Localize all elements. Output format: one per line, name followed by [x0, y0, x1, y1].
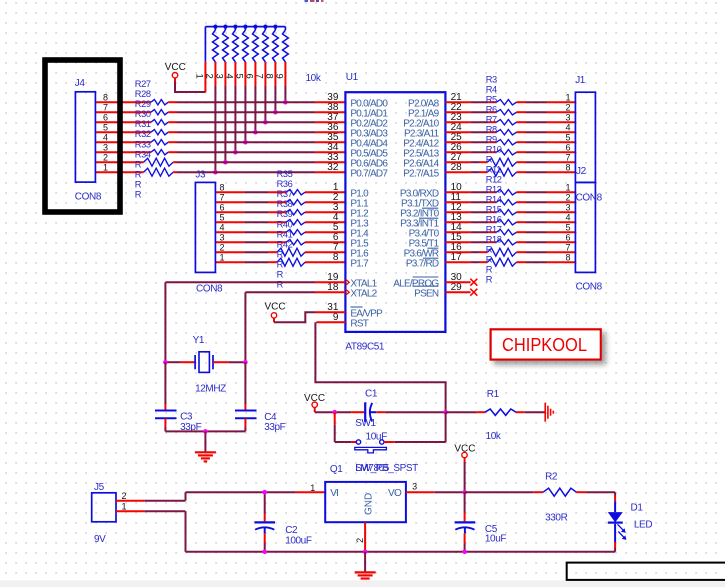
ground (crystal) — [195, 431, 216, 461]
U1 pin name ALE/PROG with overline — [393, 277, 439, 289]
svg-text:R40: R40 — [277, 219, 293, 229]
svg-text:2: 2 — [203, 74, 214, 79]
svg-text:1: 1 — [565, 182, 570, 192]
wire Q1 GND pin2 to rail — [364, 522, 366, 552]
svg-text:10k: 10k — [486, 431, 502, 442]
wire+resistor on J4 row 5 — [95, 130, 345, 135]
crystal Y1 — [165, 352, 245, 373]
svg-text:2: 2 — [565, 102, 570, 112]
ground (center bottom) — [355, 552, 376, 582]
svg-text:LM7805: LM7805 — [355, 463, 390, 474]
wire+resistor on J4 row 3 — [95, 150, 345, 155]
pack pin numbers 1-9 (rotated) — [193, 74, 284, 79]
resistor pack element 9 — [283, 27, 289, 86]
svg-text:CON8: CON8 — [576, 282, 603, 293]
wire+resistor P3.7 to J2 pin 8 — [445, 258, 575, 266]
U1 pin names P1.0-P1.7 — [350, 188, 369, 269]
svg-text:10k: 10k — [306, 73, 322, 84]
junction node pull-up/1 — [273, 110, 278, 115]
svg-text:R: R — [135, 169, 142, 179]
svg-text:SW1: SW1 — [355, 418, 376, 429]
CHIPKOOL logo box — [491, 329, 601, 359]
svg-text:29: 29 — [451, 282, 463, 293]
svg-text:J1: J1 — [575, 75, 586, 86]
svg-text:R10: R10 — [486, 145, 502, 155]
svg-text:6: 6 — [565, 232, 570, 242]
title block frame corner — [567, 563, 725, 580]
svg-text:R18: R18 — [486, 235, 502, 245]
svg-text:R3: R3 — [486, 75, 497, 85]
svg-text:28: 28 — [451, 162, 463, 173]
svg-text:33pF: 33pF — [264, 422, 285, 433]
wire RST pin 9 down to reset node — [315, 322, 445, 412]
svg-text:CON8: CON8 — [196, 284, 223, 295]
svg-text:R37: R37 — [277, 189, 293, 199]
wire+resistor P3.2 to J2 pin 3 — [445, 210, 575, 215]
svg-text:1: 1 — [121, 501, 126, 511]
svg-text:P3.7/RD: P3.7/RD — [406, 258, 439, 269]
wire+resistor P2.7 to J1 pin 8 — [445, 168, 575, 176]
cut-off text fragment at top edge — [305, 0, 324, 2]
wire+resistor on J3 row 6 — [215, 210, 345, 215]
junction node pull-up/0 — [283, 100, 288, 105]
wire+resistor on J4 row 4 — [95, 140, 345, 145]
U1 pin names XTAL1 XTAL2 — [350, 278, 377, 299]
wire+resistor P3.6 to J2 pin 7 — [445, 248, 575, 256]
svg-text:8: 8 — [333, 252, 339, 263]
pin 1 common lead of resistor pack — [204, 27, 206, 92]
svg-text:AT89C51: AT89C51 — [345, 342, 385, 353]
svg-text:R1: R1 — [487, 389, 500, 400]
svg-text:3: 3 — [565, 112, 570, 122]
wire+resistor on J3 row 1 — [215, 258, 345, 266]
no-connect X on pin 30 — [445, 279, 477, 286]
U1 pin names P0.0-P0.7 — [350, 98, 388, 179]
wire VCC to EA/VPP pin 31 — [274, 312, 345, 322]
svg-text:CON8: CON8 — [75, 192, 102, 203]
junction blue dots on pack top bus — [213, 25, 277, 29]
wire: pull-up 4 down to P0 row — [234, 86, 236, 152]
svg-text:R: R — [486, 275, 493, 285]
no-connect X on pin 29 — [445, 289, 477, 296]
wire: pull-up 3 down to P0 row — [224, 86, 226, 162]
U1 pin numbers 21-28 — [451, 92, 463, 173]
power symbol VCC (5V rail) — [454, 443, 475, 457]
wire J5 pin1 to ground rail — [116, 511, 186, 552]
svg-text:2: 2 — [121, 491, 126, 501]
connector J2 body — [575, 182, 595, 272]
svg-text:8: 8 — [219, 182, 224, 192]
svg-text:P1.7: P1.7 — [350, 258, 369, 269]
resistor pack element 7 — [263, 27, 269, 86]
wire VCC to pack pin 1 — [175, 78, 205, 92]
resistor R1 — [446, 409, 545, 415]
svg-text:4: 4 — [219, 222, 224, 232]
svg-text:R: R — [486, 255, 493, 265]
svg-text:9: 9 — [273, 74, 284, 79]
svg-text:R4: R4 — [486, 85, 497, 95]
wire: pull-up 5 down to P0 row — [244, 86, 246, 142]
resistor pack element 4 — [233, 27, 239, 86]
svg-text:R42: R42 — [277, 239, 293, 249]
svg-text:R: R — [277, 270, 284, 280]
wire+resistor P2.6 to J1 pin 7 — [445, 158, 575, 166]
svg-text:Y1: Y1 — [193, 335, 205, 346]
svg-text:4: 4 — [103, 132, 108, 142]
svg-text:5: 5 — [233, 74, 244, 79]
svg-text:R39: R39 — [277, 209, 293, 219]
J5 pin numbers — [121, 491, 126, 512]
svg-text:R14: R14 — [486, 195, 502, 205]
wire Q1 VO to VCC node — [406, 491, 465, 493]
wire J5 pin2 to Q1 VI — [116, 492, 325, 501]
junction C2 top — [262, 490, 267, 495]
wire+resistor on J3 row 4 — [215, 230, 345, 235]
wire VCC down to VO node — [464, 458, 466, 493]
svg-text:R17: R17 — [486, 225, 502, 235]
connector J3 body — [195, 182, 215, 272]
svg-text:R31: R31 — [135, 119, 151, 129]
svg-text:CHIPKOOL: CHIPKOOL — [502, 335, 587, 355]
U1 pin name PSEN with overline — [413, 286, 439, 299]
wire: pull-up 7 down to P0 row — [264, 86, 266, 122]
wire+resistor P3.0 to J2 pin 1 — [445, 190, 575, 195]
svg-text:8: 8 — [263, 74, 274, 79]
svg-text:100uF: 100uF — [285, 536, 312, 547]
wire+resistor on J3 row 7 — [215, 200, 345, 205]
wire+resistor P3.3 to J2 pin 4 — [445, 220, 575, 225]
J1 pin numbers 1-8 — [565, 92, 570, 172]
svg-text:PSEN: PSEN — [414, 288, 439, 299]
junction node pull-up/3 — [253, 130, 258, 135]
svg-text:R36: R36 — [277, 179, 293, 189]
junction node pull-up/4 — [243, 140, 248, 145]
svg-text:R27: R27 — [135, 79, 151, 89]
svg-text:J4: J4 — [75, 78, 86, 89]
svg-text:1: 1 — [103, 162, 108, 172]
svg-text:1: 1 — [310, 483, 315, 493]
svg-text:1: 1 — [193, 74, 204, 79]
svg-text:R13: R13 — [486, 185, 502, 195]
junction crystal right — [243, 360, 248, 365]
junction Q1 gnd — [363, 550, 368, 555]
svg-text:5: 5 — [219, 212, 224, 222]
ground (R1, right-facing) — [544, 403, 546, 422]
svg-text:9: 9 — [333, 312, 339, 323]
svg-text:VCC: VCC — [165, 62, 186, 73]
svg-text:Q1: Q1 — [330, 464, 343, 475]
svg-text:2: 2 — [219, 242, 224, 252]
svg-text:R28: R28 — [135, 89, 151, 99]
junction C2 bottom — [262, 550, 267, 555]
svg-text:P0.7/AD7: P0.7/AD7 — [350, 168, 388, 179]
svg-text:4: 4 — [565, 212, 570, 222]
svg-text:3: 3 — [565, 202, 570, 212]
svg-text:XTAL2: XTAL2 — [350, 288, 377, 299]
XTAL2 clock arrow — [346, 289, 350, 295]
svg-text:4: 4 — [565, 122, 570, 132]
svg-text:8: 8 — [103, 92, 108, 102]
wire+resistor P3.5 to J2 pin 6 — [445, 240, 575, 245]
svg-text:330R: 330R — [545, 513, 567, 524]
U1 pin numbers 19 18 — [327, 272, 339, 293]
svg-text:6: 6 — [243, 74, 254, 79]
svg-text:2: 2 — [103, 152, 108, 162]
svg-text:R: R — [486, 265, 493, 275]
connector J5 body — [92, 493, 116, 522]
wire XTAL2 net (chip to crystal right) — [245, 292, 345, 362]
svg-text:8: 8 — [565, 252, 570, 262]
J4 pin numbers 8..1 — [103, 92, 108, 172]
power symbol VCC (top left) — [165, 62, 186, 78]
resistor pack element 3 — [223, 27, 229, 86]
svg-text:R6: R6 — [486, 105, 497, 115]
svg-text:R11: R11 — [486, 165, 501, 175]
svg-text:10uF: 10uF — [485, 533, 506, 544]
svg-text:7: 7 — [103, 102, 108, 112]
svg-text:R8: R8 — [486, 125, 497, 135]
svg-text:5: 5 — [103, 122, 108, 132]
U1 pin name EA/VPP with overline — [350, 307, 383, 319]
U1 pin names P2.0-P2.7 — [403, 98, 439, 179]
bottom gray strip — [0, 580, 725, 587]
wire+resistor on J4 row 2 — [95, 158, 345, 166]
J2 pin numbers 1-8 — [565, 182, 570, 262]
svg-text:R7: R7 — [486, 115, 497, 125]
right resistor label column R3-R18 — [486, 75, 502, 285]
capacitor C2 — [254, 492, 275, 552]
resistor pack element 8 — [273, 27, 279, 86]
svg-text:7: 7 — [565, 242, 570, 252]
svg-text:J2: J2 — [576, 166, 587, 177]
ground rail wire — [186, 551, 616, 553]
resistor pack element 2 — [213, 27, 219, 86]
svg-text:R: R — [277, 250, 284, 260]
svg-text:R: R — [486, 245, 493, 255]
junction reset right — [443, 410, 448, 415]
svg-text:R: R — [486, 155, 493, 165]
wire+resistor on J4 row 7 — [95, 110, 345, 115]
wire+resistor on J4 row 6 — [95, 120, 345, 125]
svg-text:U1: U1 — [346, 72, 359, 83]
svg-text:12MHZ: 12MHZ — [195, 384, 226, 395]
svg-text:3: 3 — [219, 232, 224, 242]
svg-text:R29: R29 — [135, 99, 151, 109]
svg-text:R41: R41 — [277, 229, 293, 239]
svg-text:7: 7 — [219, 192, 224, 202]
connector J1 body — [575, 92, 595, 182]
black highlight frame around J4 — [45, 60, 120, 212]
junction node pull-up/7 — [213, 170, 218, 175]
U1 pin names P3.0-P3.7 — [400, 188, 440, 269]
svg-text:RST: RST — [350, 318, 368, 329]
svg-text:VCC: VCC — [265, 301, 286, 312]
svg-text:3: 3 — [213, 74, 224, 79]
svg-text:R30: R30 — [135, 109, 151, 119]
svg-text:LED: LED — [634, 520, 652, 531]
wire: pull-up 6 down to P0 row — [254, 86, 256, 132]
wire+resistor P2.5 to J1 pin 6 — [445, 150, 575, 155]
wire+resistor P3.4 to J2 pin 5 — [445, 230, 575, 235]
junction node pull-up/6 — [223, 160, 228, 165]
U1 pin numbers 31 9 — [327, 302, 339, 323]
svg-text:R: R — [277, 260, 284, 270]
svg-text:GND: GND — [364, 493, 375, 515]
U1 pin numbers 39-32 — [327, 92, 339, 173]
svg-text:5: 5 — [565, 222, 570, 232]
resistor pack element 5 — [243, 27, 249, 86]
svg-text:R32: R32 — [135, 129, 151, 139]
junction node pull-up/5 — [233, 150, 238, 155]
op U1 AT89C51 body — [345, 92, 445, 332]
J3 pin numbers 8..1 — [219, 182, 224, 262]
wire+resistor on J4 row 1 — [95, 168, 345, 176]
svg-text:3: 3 — [103, 142, 108, 152]
svg-text:VO: VO — [388, 488, 402, 499]
svg-text:3: 3 — [412, 481, 417, 491]
svg-text:7: 7 — [565, 152, 570, 162]
svg-text:R5: R5 — [486, 95, 497, 105]
svg-text:1: 1 — [219, 252, 224, 262]
svg-text:17: 17 — [451, 252, 463, 263]
svg-text:2: 2 — [565, 192, 570, 202]
wire+resistor on J3 row 2 — [215, 248, 345, 256]
svg-text:C2: C2 — [285, 525, 298, 536]
wire+resistor P2.3 to J1 pin 4 — [445, 130, 575, 135]
svg-text:J3: J3 — [195, 170, 206, 181]
power symbol VCC (reset) — [304, 393, 325, 408]
capacitor C5 — [455, 492, 476, 552]
junction VO node — [462, 490, 467, 495]
svg-text:VI: VI — [330, 488, 338, 499]
svg-text:1: 1 — [565, 92, 570, 102]
XTAL1 clock arrow — [346, 279, 350, 285]
svg-text:R33: R33 — [135, 139, 151, 149]
connector J4 body — [75, 92, 95, 182]
svg-text:R34: R34 — [135, 149, 151, 159]
svg-text:CON8: CON8 — [576, 192, 603, 203]
svg-text:R: R — [135, 180, 142, 190]
junction reset left — [332, 410, 337, 415]
resistor pack element 6 — [253, 27, 259, 86]
wire+resistor P2.0 to J1 pin 1 — [445, 100, 575, 105]
svg-text:32: 32 — [327, 162, 339, 173]
wire+resistor on J3 row 3 — [215, 240, 345, 245]
svg-text:9V: 9V — [94, 534, 106, 545]
svg-text:R: R — [135, 159, 142, 169]
wire+resistor P2.1 to J1 pin 2 — [445, 110, 575, 115]
wire+resistor P2.2 to J1 pin 3 — [445, 120, 575, 125]
wire+resistor on J3 row 8 — [215, 190, 345, 195]
svg-text:R12: R12 — [486, 175, 502, 185]
junction C5 bottom — [462, 550, 467, 555]
U1 pin numbers 1-8 — [333, 182, 339, 263]
svg-text:R16: R16 — [486, 215, 502, 225]
capacitor C3 — [155, 362, 177, 431]
wire: pull-up 8 down to P0 row — [274, 86, 276, 112]
switch SW1 — [335, 412, 446, 453]
wire+resistor on J4 row 8 — [95, 100, 345, 105]
svg-text:R35: R35 — [277, 169, 293, 179]
svg-text:J5: J5 — [94, 482, 105, 493]
resistor labels R27-R34 and R column — [135, 79, 151, 200]
svg-text:6: 6 — [219, 202, 224, 212]
svg-text:5: 5 — [565, 132, 570, 142]
wire XTAL1 net (chip to crystal left) — [165, 282, 345, 362]
wire+resistor on J3 row 5 — [215, 220, 345, 225]
wire+resistor P2.4 to J1 pin 5 — [445, 140, 575, 145]
LED arrows — [618, 524, 627, 540]
resistor R2 — [465, 488, 615, 496]
svg-text:18: 18 — [327, 282, 339, 293]
wire crystal ground rail — [165, 430, 245, 432]
capacitor C1 — [315, 402, 446, 422]
junction crystal gnd — [203, 429, 208, 434]
svg-text:C1: C1 — [365, 388, 378, 399]
U1 pin numbers 30 29 — [451, 272, 463, 293]
svg-text:C3: C3 — [180, 411, 193, 422]
svg-text:7: 7 — [253, 74, 264, 79]
svg-text:P2.7/A15: P2.7/A15 — [403, 168, 439, 179]
wire: pull-up 9 down to P0 row — [284, 86, 286, 102]
svg-text:R38: R38 — [277, 199, 293, 209]
LED D1 — [608, 492, 623, 552]
svg-text:2: 2 — [355, 538, 365, 543]
svg-text:D1: D1 — [631, 503, 644, 514]
svg-text:6: 6 — [565, 142, 570, 152]
svg-text:4: 4 — [223, 74, 234, 79]
capacitor C4 — [235, 362, 257, 431]
svg-text:8: 8 — [565, 162, 570, 172]
junction node pull-up/2 — [263, 120, 268, 125]
svg-text:R2: R2 — [545, 471, 558, 482]
wire: resistor-pack common top bus — [205, 26, 285, 28]
regulator Q1 body — [325, 482, 406, 522]
wire: pull-up 2 down to P0 row — [214, 86, 216, 172]
resistor labels R35-R42 and R column — [277, 169, 293, 290]
svg-text:6: 6 — [103, 112, 108, 122]
svg-text:R: R — [135, 190, 142, 200]
wire+resistor P3.1 to J2 pin 2 — [445, 200, 575, 205]
power symbol VCC (EA) — [265, 301, 286, 318]
svg-text:R9: R9 — [486, 135, 497, 145]
junction crystal left — [163, 360, 168, 365]
svg-text:R15: R15 — [486, 205, 502, 215]
U1 pin numbers 10-17 — [451, 182, 463, 263]
